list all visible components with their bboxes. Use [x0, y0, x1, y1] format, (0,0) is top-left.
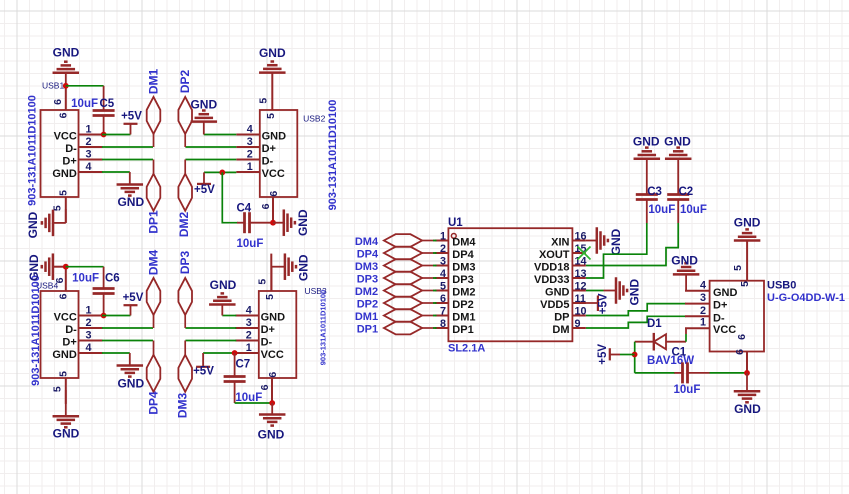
power +5V: [194, 172, 215, 196]
svg-text:6: 6: [259, 384, 271, 390]
ground: [259, 46, 286, 73]
connector USB4: [30, 267, 103, 404]
net port DM1: [147, 69, 161, 147]
svg-text:+5V: +5V: [123, 292, 144, 304]
junction: [232, 350, 238, 356]
connector USB0: [685, 241, 845, 373]
svg-text:D+: D+: [713, 300, 727, 312]
svg-text:6: 6: [267, 372, 279, 378]
svg-text:DM3: DM3: [355, 261, 378, 273]
no-connect X on XOUT: [578, 247, 591, 260]
ground: [26, 210, 53, 239]
svg-text:3: 3: [440, 256, 446, 268]
wire: [53, 209, 66, 223]
junction: [632, 352, 638, 358]
net port DP3: [357, 272, 437, 286]
svg-text:VCC: VCC: [262, 168, 285, 180]
net port DM2: [177, 160, 192, 238]
svg-text:6: 6: [57, 293, 69, 299]
svg-text:3: 3: [247, 136, 253, 148]
svg-text:1: 1: [440, 231, 446, 243]
svg-text:6: 6: [52, 99, 64, 105]
svg-text:GND: GND: [53, 427, 80, 441]
svg-text:D-: D-: [713, 312, 725, 324]
svg-text:2: 2: [247, 149, 253, 161]
svg-text:DP1: DP1: [147, 210, 161, 234]
svg-text:2: 2: [700, 305, 706, 317]
ground: [604, 277, 642, 305]
svg-text:USB2: USB2: [303, 114, 325, 124]
wire: [635, 372, 675, 374]
svg-text:GND: GND: [713, 287, 738, 299]
wire: [222, 172, 238, 222]
svg-text:GND: GND: [628, 279, 642, 306]
svg-text:GND: GND: [52, 168, 77, 180]
svg-text:10uF: 10uF: [72, 273, 99, 285]
wire: [102, 171, 130, 173]
wire: [586, 223, 647, 278]
svg-text:10uF: 10uF: [71, 98, 98, 110]
svg-text:GND: GND: [117, 195, 144, 209]
svg-text:VCC: VCC: [54, 131, 77, 143]
svg-text:VDD33: VDD33: [534, 274, 569, 286]
ground: [27, 253, 66, 280]
capacitor C3: [636, 159, 675, 223]
capacitor C5: [71, 86, 115, 135]
svg-text:DP2: DP2: [357, 298, 378, 310]
svg-text:DP4: DP4: [147, 391, 161, 415]
ground: [53, 46, 80, 73]
svg-text:5: 5: [58, 371, 70, 377]
svg-text:D+: D+: [62, 337, 76, 349]
svg-text:DM3: DM3: [176, 393, 190, 419]
svg-text:GND: GND: [26, 211, 40, 238]
power +5V: [121, 111, 142, 135]
svg-text:DP2: DP2: [178, 70, 192, 94]
svg-text:GND: GND: [609, 228, 623, 255]
svg-text:+5V: +5V: [121, 111, 142, 123]
wire: [102, 352, 130, 354]
svg-text:1: 1: [247, 161, 253, 173]
svg-text:6: 6: [734, 349, 746, 355]
svg-text:VDD18: VDD18: [534, 262, 569, 274]
svg-text:D-: D-: [262, 156, 274, 168]
svg-text:2: 2: [85, 136, 91, 148]
capacitor C2: [667, 159, 707, 223]
svg-text:D+: D+: [62, 156, 76, 168]
wire: [185, 159, 236, 161]
svg-text:DM4: DM4: [147, 250, 161, 276]
svg-text:C6: C6: [105, 273, 120, 285]
svg-text:VDD5: VDD5: [540, 299, 569, 311]
svg-text:GND: GND: [52, 349, 77, 361]
ground: [209, 278, 237, 316]
junction: [219, 170, 225, 176]
svg-text:5: 5: [257, 98, 269, 104]
net port DM3: [176, 341, 193, 419]
svg-text:10uF: 10uF: [680, 204, 707, 216]
ground: [117, 172, 145, 209]
svg-text:D-: D-: [261, 337, 273, 349]
svg-text:GND: GND: [259, 46, 286, 60]
ground: [53, 416, 80, 440]
wire: [102, 159, 153, 161]
svg-text:GND: GND: [734, 216, 761, 230]
capacitor C4: [237, 203, 274, 251]
svg-text:DM2: DM2: [452, 287, 475, 299]
wire: [102, 340, 153, 342]
ground: [586, 227, 623, 255]
svg-text:D-: D-: [65, 143, 77, 155]
svg-text:1: 1: [246, 342, 252, 354]
junction: [270, 220, 276, 226]
svg-text:+5V: +5V: [193, 366, 214, 378]
wire: [586, 223, 678, 266]
wire: [235, 402, 273, 404]
svg-text:C2: C2: [679, 186, 694, 198]
svg-text:GND: GND: [664, 135, 691, 149]
wire: [185, 340, 236, 342]
svg-text:GND: GND: [190, 98, 217, 112]
svg-text:C7: C7: [236, 358, 251, 370]
svg-text:6: 6: [440, 293, 446, 305]
svg-text:D+: D+: [262, 143, 276, 155]
svg-text:5: 5: [265, 113, 277, 119]
wire: [65, 390, 67, 416]
svg-text:7: 7: [440, 306, 446, 318]
svg-text:GND: GND: [53, 46, 80, 60]
svg-text:8: 8: [440, 318, 446, 330]
net port DP1: [147, 160, 161, 234]
capacitor C6: [72, 267, 120, 316]
wire: [634, 342, 636, 373]
svg-text:DP2: DP2: [452, 299, 473, 311]
wire: [66, 85, 104, 87]
junction: [101, 132, 107, 138]
svg-text:1: 1: [700, 317, 706, 329]
net port DP1: [357, 322, 437, 336]
svg-text:4: 4: [440, 268, 446, 280]
svg-text:4: 4: [700, 279, 706, 291]
svg-text:2: 2: [85, 317, 91, 329]
svg-text:12: 12: [575, 281, 587, 293]
wire: [203, 352, 236, 354]
svg-text:903-131A1011D10100: 903-131A1011D10100: [30, 275, 42, 386]
svg-text:GND: GND: [258, 428, 285, 442]
svg-text:16: 16: [575, 231, 587, 243]
svg-text:D-: D-: [65, 324, 77, 336]
svg-text:903-131A1011D10100: 903-131A1011D10100: [327, 100, 339, 211]
svg-text:4: 4: [246, 305, 252, 317]
svg-text:DP4: DP4: [452, 249, 474, 261]
capacitor C1: [672, 347, 710, 397]
svg-text:6: 6: [268, 191, 280, 197]
svg-text:10: 10: [575, 306, 587, 318]
ground: [117, 353, 145, 391]
svg-text:GND: GND: [734, 402, 761, 416]
connector USB1: [26, 81, 102, 223]
svg-text:DP: DP: [554, 312, 569, 324]
svg-text:9: 9: [575, 318, 581, 330]
junction: [101, 313, 107, 319]
junction: [269, 400, 275, 406]
connector USB3: [235, 254, 327, 404]
svg-text:DP3: DP3: [452, 274, 473, 286]
svg-text:DM2: DM2: [177, 212, 191, 238]
svg-text:6: 6: [57, 112, 69, 118]
svg-text:6: 6: [260, 203, 272, 209]
svg-text:GND: GND: [545, 287, 570, 299]
wire: [685, 328, 687, 342]
svg-text:GND: GND: [297, 254, 311, 281]
svg-text:DP3: DP3: [178, 251, 192, 275]
svg-text:2: 2: [246, 330, 252, 342]
svg-text:5: 5: [440, 281, 446, 293]
svg-text:903-131A1011D10100: 903-131A1011D10100: [319, 290, 328, 365]
net port DM4: [147, 250, 161, 328]
svg-text:SL2.1A: SL2.1A: [448, 343, 485, 355]
wire: [586, 304, 686, 316]
net port DP4: [357, 247, 437, 261]
svg-text:2: 2: [440, 243, 446, 255]
net port DM1: [355, 309, 437, 323]
svg-text:GND: GND: [296, 209, 310, 236]
svg-text:3: 3: [85, 330, 91, 342]
svg-text:DP1: DP1: [357, 323, 378, 335]
svg-text:+5V: +5V: [194, 184, 215, 196]
svg-text:10uF: 10uF: [237, 238, 264, 250]
wire: [204, 171, 236, 173]
svg-text:GND: GND: [261, 312, 286, 324]
svg-text:DM2: DM2: [355, 286, 378, 298]
svg-text:C3: C3: [647, 186, 662, 198]
svg-text:5: 5: [256, 279, 268, 285]
wire: [185, 327, 236, 329]
svg-text:DM1: DM1: [452, 312, 475, 324]
svg-text:+5V: +5V: [598, 293, 610, 314]
net port DM3: [355, 259, 437, 273]
svg-text:4: 4: [85, 161, 91, 173]
wire: [586, 290, 604, 292]
svg-text:DP4: DP4: [357, 248, 379, 260]
net port DP3: [178, 251, 192, 328]
wire: [710, 372, 748, 374]
wire: [222, 315, 236, 317]
net port DP4: [147, 341, 161, 415]
wire: [746, 373, 748, 391]
power +5V: [572, 293, 609, 314]
net port DP2: [178, 70, 192, 147]
svg-text:DM1: DM1: [147, 69, 161, 95]
wire: [185, 146, 236, 148]
svg-text:DM4: DM4: [452, 237, 476, 249]
svg-text:D+: D+: [261, 324, 275, 336]
svg-text:3: 3: [85, 149, 91, 161]
wire: [102, 146, 153, 148]
power +5V: [597, 344, 635, 365]
svg-text:5: 5: [51, 386, 63, 392]
svg-text:DM: DM: [552, 324, 569, 336]
svg-text:10uF: 10uF: [674, 384, 701, 396]
svg-text:1: 1: [85, 124, 91, 136]
svg-text:DP1: DP1: [452, 324, 473, 336]
svg-text:5: 5: [732, 265, 744, 271]
svg-text:GND: GND: [633, 135, 660, 149]
svg-text:C1: C1: [672, 347, 687, 359]
ground: [258, 415, 286, 442]
junction: [63, 83, 69, 89]
svg-text:6: 6: [736, 334, 748, 340]
svg-text:VCC: VCC: [713, 324, 736, 336]
wire: [102, 134, 131, 136]
wire: [66, 266, 104, 268]
connector USB2: [236, 73, 338, 223]
power +5V: [193, 353, 214, 378]
diode D1 BAV16W: [635, 318, 695, 367]
ground: [633, 135, 660, 159]
svg-text:3: 3: [246, 317, 252, 329]
svg-text:USB0: USB0: [767, 280, 796, 292]
ground: [664, 135, 691, 159]
svg-text:DM3: DM3: [452, 262, 475, 274]
net port DP2: [357, 297, 437, 311]
net port DM4: [355, 234, 437, 248]
IC U1 SL2.1A: [435, 217, 587, 355]
net port DM2: [355, 284, 437, 298]
svg-text:13: 13: [575, 268, 587, 280]
svg-text:5: 5: [264, 294, 276, 300]
svg-text:GND: GND: [27, 254, 41, 281]
svg-text:10uF: 10uF: [648, 204, 675, 216]
svg-text:U-G-O4DD-W-1: U-G-O4DD-W-1: [767, 292, 845, 304]
wire: [65, 73, 67, 86]
svg-text:VCC: VCC: [261, 349, 284, 361]
svg-text:1: 1: [85, 305, 91, 317]
svg-text:XOUT: XOUT: [539, 249, 570, 261]
svg-text:903-131A1011D10100: 903-131A1011D10100: [26, 95, 38, 206]
svg-text:DM4: DM4: [355, 236, 379, 248]
svg-text:GND: GND: [671, 254, 698, 268]
svg-text:D1: D1: [647, 318, 662, 330]
svg-text:C4: C4: [237, 203, 252, 215]
wire: [272, 267, 285, 291]
wire: [271, 403, 273, 415]
svg-text:U1: U1: [448, 217, 463, 229]
svg-text:VCC: VCC: [54, 312, 77, 324]
svg-text:GND: GND: [117, 377, 144, 391]
ground: [734, 391, 761, 416]
junction: [63, 264, 69, 270]
ground: [285, 253, 311, 281]
power +5V: [123, 292, 144, 316]
ground: [671, 254, 699, 291]
capacitor C7: [224, 353, 263, 404]
svg-text:USB1: USB1: [42, 81, 64, 91]
junction: [744, 370, 750, 376]
svg-text:XIN: XIN: [551, 237, 569, 249]
wire: [204, 134, 237, 136]
svg-text:5: 5: [739, 281, 751, 287]
wire: [586, 316, 686, 328]
svg-text:DM1: DM1: [355, 311, 378, 323]
svg-text:4: 4: [247, 124, 253, 136]
svg-text:+5V: +5V: [597, 344, 609, 365]
svg-text:C5: C5: [100, 98, 115, 110]
svg-text:3: 3: [700, 292, 706, 304]
wire: [102, 315, 131, 317]
svg-text:4: 4: [85, 342, 91, 354]
svg-text:GND: GND: [262, 131, 287, 143]
wire: [102, 327, 153, 329]
svg-text:5: 5: [58, 190, 70, 196]
ground: [190, 98, 217, 135]
ground: [273, 209, 310, 236]
svg-text:DP3: DP3: [357, 273, 378, 285]
ground: [734, 216, 761, 241]
svg-text:GND: GND: [210, 278, 237, 292]
